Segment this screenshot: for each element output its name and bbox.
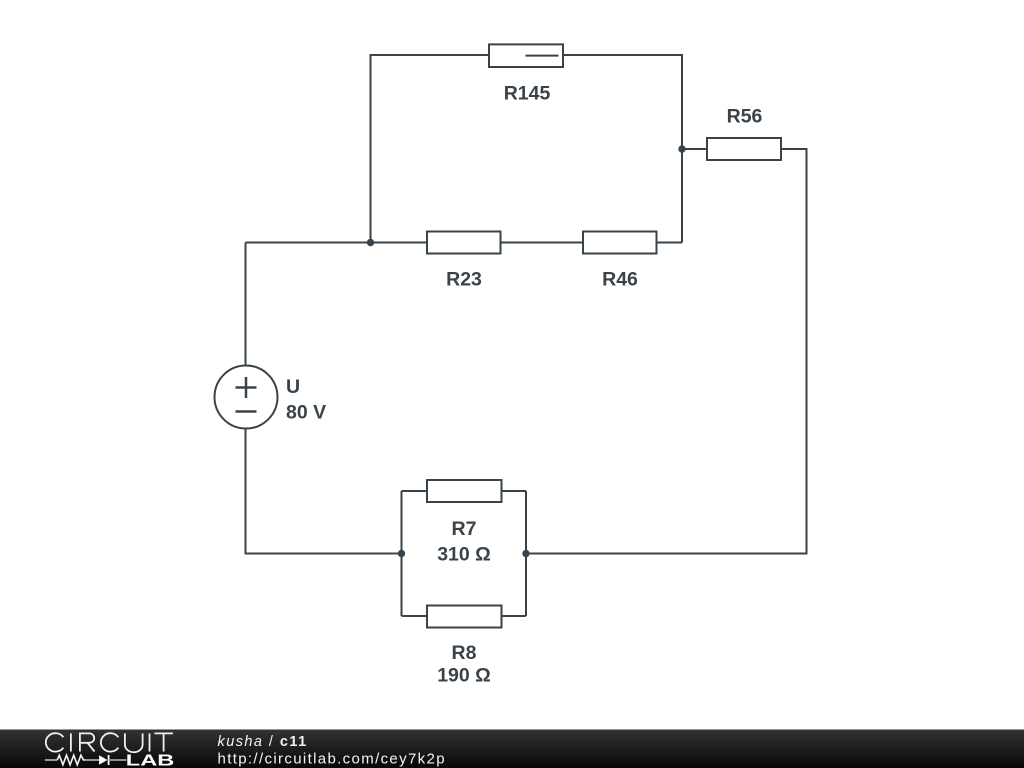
- resistor R7 body: [427, 480, 502, 502]
- footer bar background: [0, 730, 1024, 768]
- svg-text:kusha / c11: kusha / c11: [218, 734, 308, 750]
- wire R7 left lead: [402, 490, 428, 492]
- svg-text:R8: R8: [452, 642, 477, 664]
- wire middle horizontal from left corner through junction to R23: [246, 242, 428, 244]
- svg-text:80 V: 80 V: [286, 402, 326, 424]
- wire R145 right to top-right corner down: [563, 55, 682, 243]
- svg-text:R23: R23: [446, 269, 482, 291]
- svg-text:LAB: LAB: [126, 752, 175, 768]
- svg-text:R46: R46: [602, 269, 638, 291]
- CircuitLab logo resistor-diode line: [45, 759, 127, 761]
- resistor R23 body: [427, 232, 501, 254]
- resistor R56 body: [707, 138, 781, 160]
- wire R8 right lead: [502, 615, 527, 617]
- resistor R145 body: [489, 44, 563, 67]
- voltage source U circle: [215, 366, 278, 429]
- wire R46 right lead to vertical: [657, 242, 683, 244]
- wire R56 left lead from junction: [682, 148, 707, 150]
- wire bottom horizontal right and long right vertical up to R56: [526, 149, 807, 554]
- wire voltage source bottom to bottom-left corner then right: [246, 428, 402, 553]
- resistor R46 body: [583, 232, 657, 254]
- svg-text:R7: R7: [452, 518, 477, 540]
- wire left vertical down to voltage source top: [245, 243, 247, 366]
- CircuitLab logo word CIRCUIT: [46, 733, 173, 752]
- wire parallel bracket left vertical: [401, 491, 403, 616]
- resistor R8 body: [427, 606, 502, 628]
- svg-text:R56: R56: [727, 106, 763, 128]
- voltage source plus sign: [236, 377, 257, 398]
- junction node at parallel block right: [522, 550, 529, 557]
- svg-text:http://circuitlab.com/cey7k2p: http://circuitlab.com/cey7k2p: [218, 751, 446, 768]
- junction node at top-left T: [367, 239, 374, 246]
- wire R8 left lead: [402, 615, 428, 617]
- svg-text:190 Ω: 190 Ω: [437, 665, 491, 687]
- junction node at parallel block left: [398, 550, 405, 557]
- voltage source minus sign: [236, 410, 257, 413]
- wire parallel bracket right vertical: [525, 491, 527, 616]
- svg-text:R145: R145: [504, 83, 551, 105]
- svg-text:310 Ω: 310 Ω: [437, 544, 491, 566]
- wire R7 right lead: [502, 490, 527, 492]
- junction node at R56 left: [678, 145, 685, 152]
- wire between R23 and R46: [501, 242, 584, 244]
- wire top-left vertical and top horizontal to R145: [371, 55, 490, 243]
- svg-text:U: U: [286, 376, 300, 398]
